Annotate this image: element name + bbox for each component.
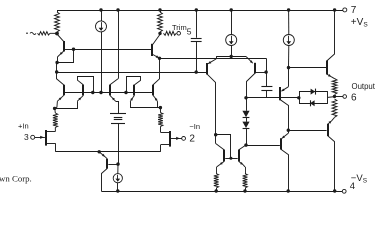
svg-text:7: 7 bbox=[351, 5, 357, 16]
svg-text:wn Corp.: wn Corp. bbox=[0, 173, 32, 183]
svg-text:+VS: +VS bbox=[351, 17, 369, 29]
svg-text:−VS: −VS bbox=[351, 173, 368, 185]
svg-text:3: 3 bbox=[24, 132, 29, 142]
svg-text:+In: +In bbox=[18, 122, 29, 131]
svg-text:Trim: Trim bbox=[172, 23, 187, 32]
svg-text:6: 6 bbox=[351, 93, 357, 104]
svg-text:5: 5 bbox=[187, 27, 192, 37]
svg-text:Output: Output bbox=[352, 82, 376, 91]
svg-text:2: 2 bbox=[189, 133, 195, 144]
svg-text:−In: −In bbox=[189, 122, 200, 131]
